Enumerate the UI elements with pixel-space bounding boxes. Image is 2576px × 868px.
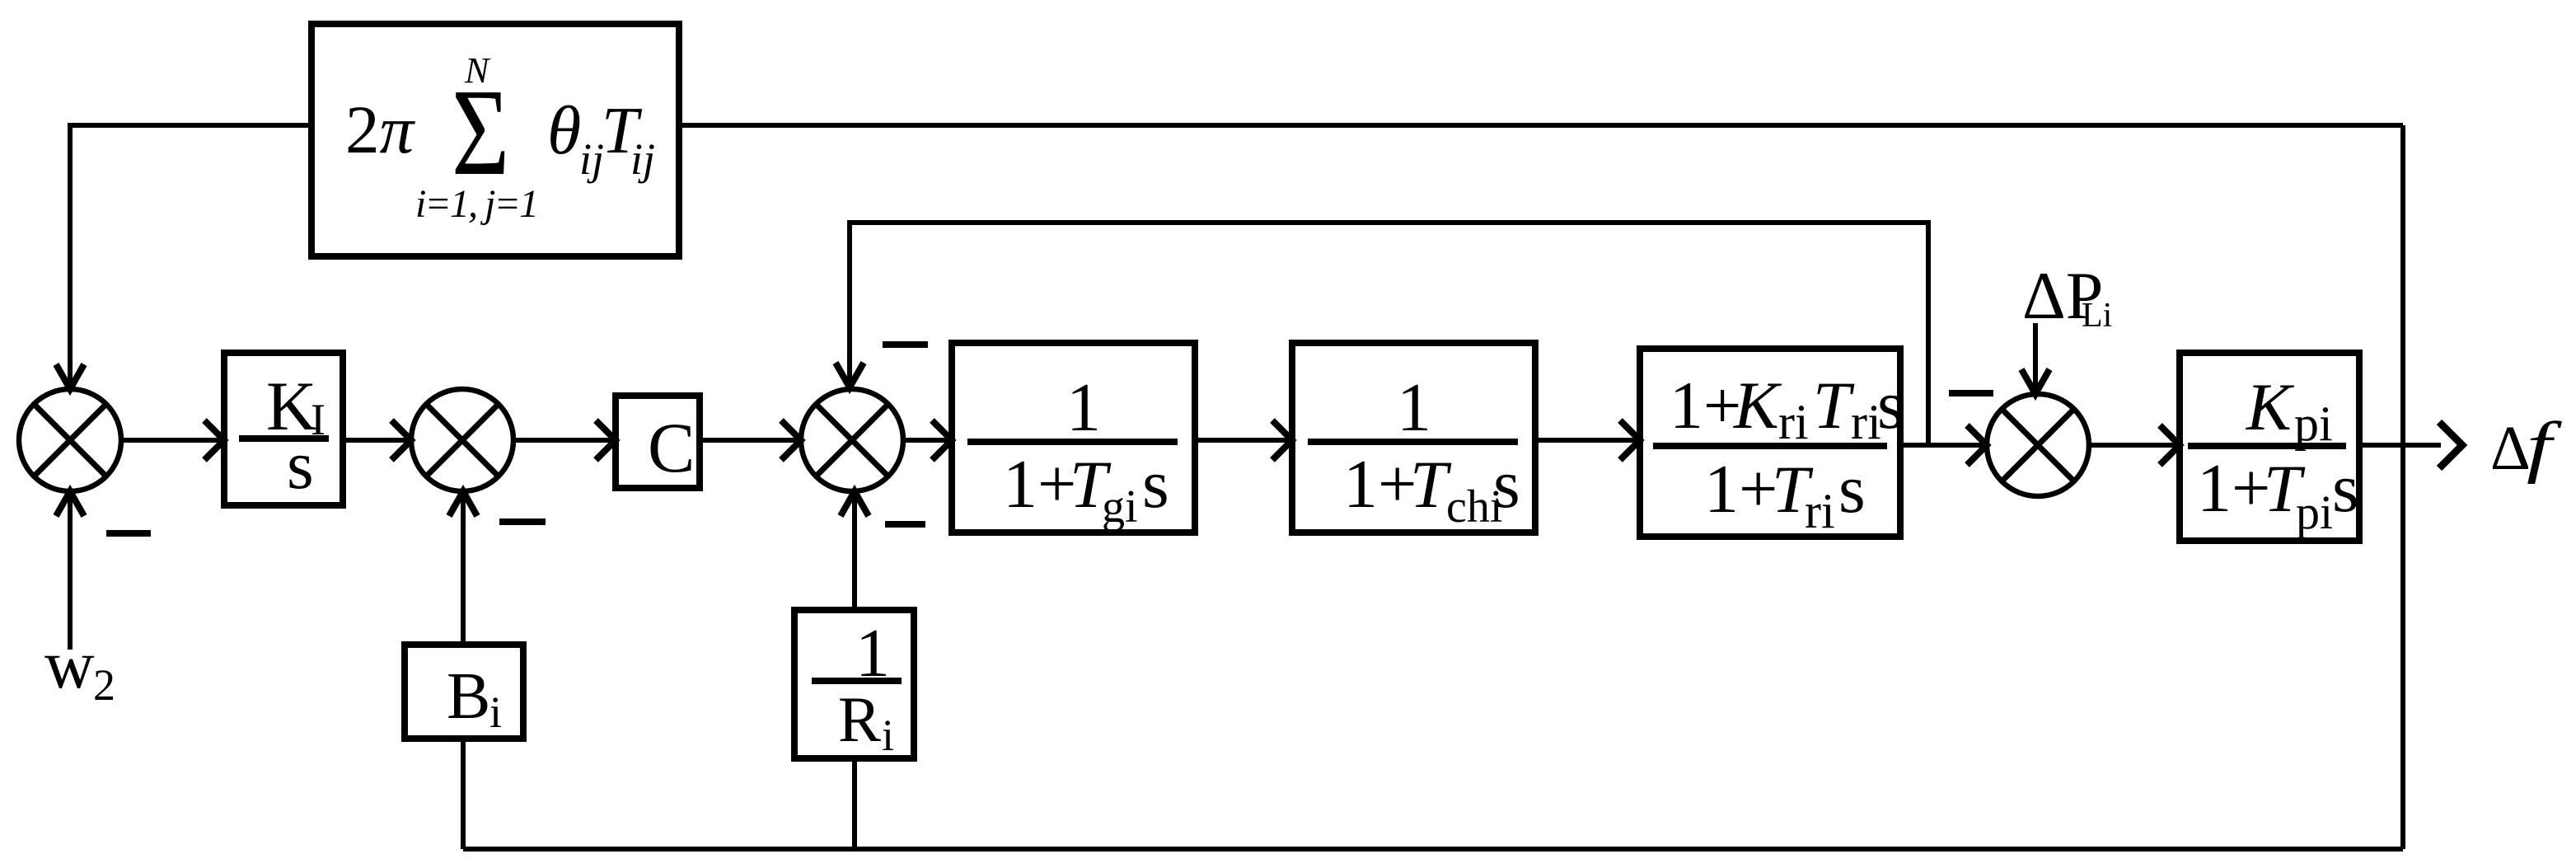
- block Kpi/(1+Tpi s): [2180, 353, 2359, 541]
- arrowhead into S1 bottom: [56, 491, 84, 516]
- label dP_Li: [2022, 258, 2112, 335]
- svg-text:ri: ri: [1778, 395, 1809, 449]
- svg-text:θ: θ: [547, 92, 581, 169]
- arrowhead into S1 top: [56, 364, 84, 389]
- input w2 wire: [68, 495, 73, 650]
- arrowhead into S3 top: [836, 363, 864, 387]
- svg-text:s: s: [1142, 446, 1169, 523]
- wire G3 to S4 (passes feedback tap junction): [1900, 443, 1984, 448]
- label df: [2490, 408, 2563, 485]
- svg-text:1: 1: [855, 615, 890, 692]
- arrowhead into G2: [1272, 420, 1292, 460]
- wire G1 to G2: [1195, 438, 1289, 443]
- svg-text:R: R: [838, 683, 881, 755]
- label w2: [44, 626, 115, 710]
- wire S1 to KI: [121, 438, 219, 443]
- summer S1: [19, 389, 121, 491]
- svg-text:Li: Li: [2082, 297, 2112, 335]
- wire 1/Ri down to bottom line: [852, 758, 857, 849]
- wire G2 to G3: [1535, 438, 1637, 443]
- minus sign S2 bottom: [499, 518, 546, 525]
- minus sign S1 bottom: [106, 530, 151, 537]
- wire 1/Ri up into S3: [852, 495, 857, 610]
- wire dP_Li into S4: [2033, 323, 2038, 391]
- svg-text:N: N: [464, 50, 491, 91]
- wire S2 to C: [513, 438, 612, 443]
- block KI/s: [224, 353, 343, 505]
- svg-text:T: T: [1813, 368, 1855, 443]
- svg-text:i=1, j=1: i=1, j=1: [415, 182, 539, 226]
- block 1/Ri: [794, 610, 914, 760]
- block C: [616, 396, 700, 488]
- arrowhead into S2: [391, 420, 411, 460]
- svg-text:1+: 1+: [1704, 451, 1777, 528]
- svg-text:s: s: [287, 427, 314, 504]
- wire top feedback left to summer S1: [70, 125, 311, 386]
- arrowhead into KI: [204, 420, 224, 460]
- arrowhead into S3 bottom: [841, 491, 869, 516]
- wire S3 to G1: [903, 438, 948, 443]
- svg-text:s: s: [2332, 450, 2359, 527]
- block G2 1/(1+Tchi s): [1292, 343, 1535, 533]
- svg-text:1+: 1+: [2197, 450, 2270, 527]
- wire top line from tie block to right vertical: [679, 123, 2403, 128]
- summer S2: [411, 389, 513, 491]
- svg-text:1: 1: [1066, 369, 1101, 446]
- svg-text:K: K: [1733, 368, 1782, 443]
- svg-text:Δ: Δ: [2490, 414, 2531, 483]
- arrowhead into S4 top: [2021, 369, 2049, 394]
- svg-text:1+: 1+: [1670, 368, 1741, 443]
- wire right vertical feedback: [2400, 125, 2405, 849]
- summer S3: [801, 389, 903, 491]
- svg-text:w: w: [44, 626, 95, 703]
- arrowhead into S2 bottom: [449, 491, 477, 516]
- summer S4: [1987, 394, 2089, 496]
- minus sign S3 top: [883, 341, 928, 348]
- svg-text:i: i: [882, 711, 894, 760]
- block B_i: [405, 645, 523, 739]
- svg-text:i: i: [489, 687, 502, 737]
- svg-text:B: B: [447, 660, 490, 733]
- svg-text:gi: gi: [1102, 481, 1138, 533]
- output wire to df: [2359, 443, 2441, 448]
- minus sign S4 top: [1949, 390, 1993, 396]
- arrowhead into S4: [1967, 425, 1987, 465]
- minus sign S3 bottom: [885, 521, 925, 528]
- wire bottom feedback line: [463, 847, 2403, 852]
- arrowhead into Kpi: [2160, 425, 2180, 465]
- svg-text:2: 2: [93, 660, 115, 710]
- arrowhead into S3: [781, 420, 801, 460]
- svg-text:pi: pi: [2296, 486, 2333, 539]
- wire KI to S2: [343, 438, 408, 443]
- svg-text:pi: pi: [2294, 396, 2333, 451]
- svg-text:s: s: [1838, 451, 1866, 528]
- arrowhead output: [2439, 422, 2462, 468]
- svg-text:2π: 2π: [345, 91, 416, 167]
- wire S4 to Kpi: [2089, 443, 2176, 448]
- wire B_i down to bottom line: [461, 739, 466, 849]
- block tie-line 2pi sum: [311, 24, 679, 256]
- svg-text:ij: ij: [630, 134, 655, 184]
- svg-text:s: s: [1493, 446, 1520, 523]
- arrowhead into G1: [932, 420, 952, 460]
- arrowhead into G3: [1620, 420, 1640, 460]
- svg-text:K: K: [2246, 369, 2295, 444]
- wire B_i up into S2: [461, 495, 466, 645]
- svg-text:ij: ij: [579, 134, 604, 184]
- arrowhead into C: [596, 420, 616, 460]
- wire C to S3: [700, 438, 798, 443]
- svg-text:s: s: [1877, 367, 1904, 443]
- svg-text:ri: ri: [1805, 484, 1835, 538]
- svg-text:1: 1: [1397, 369, 1431, 446]
- inner feedback wire from G3 output up and left into S3: [850, 223, 1928, 443]
- svg-text:1+: 1+: [1003, 446, 1076, 523]
- block G3 (1+KriTris)/(1+Tris): [1640, 349, 1904, 538]
- block G1 1/(1+Tgi s): [952, 343, 1195, 533]
- svg-text:C: C: [648, 408, 695, 487]
- svg-text:1+: 1+: [1343, 446, 1417, 523]
